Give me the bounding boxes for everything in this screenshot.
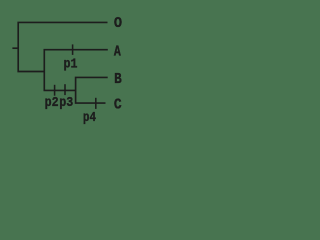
svg-text:p4: p4	[83, 111, 96, 126]
svg-text:p3: p3	[59, 96, 73, 111]
svg-text:B: B	[114, 72, 122, 88]
wire: root stub	[12, 47, 19, 49]
wire: branch to A, inner vertical, edge to BC node	[44, 50, 108, 91]
wire: branch to O, root vertical, edge to inner node	[18, 22, 107, 71]
svg-text:C: C	[114, 98, 122, 114]
tick p3	[64, 84, 66, 95]
svg-text:O: O	[114, 14, 122, 32]
tick p2	[54, 85, 56, 96]
phylogenetic tree diagram	[0, 0, 144, 135]
svg-text:p1: p1	[64, 57, 78, 72]
svg-text:A: A	[114, 45, 121, 61]
wire: branch to B, BC vertical, branch to C	[76, 77, 108, 103]
svg-text:p2: p2	[45, 96, 59, 111]
tick p4	[95, 98, 97, 109]
tick p1	[72, 44, 74, 55]
